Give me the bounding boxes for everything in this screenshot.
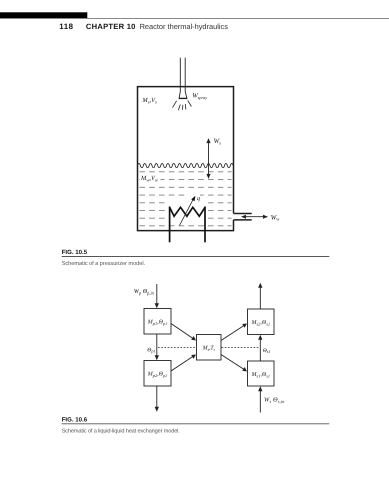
- label Mw,Vw: [140, 173, 161, 182]
- arrow Mt to Ms1: [221, 355, 247, 372]
- arrow q (heater power): [180, 194, 201, 226]
- arrow Ms1 to Ms2: [258, 335, 262, 361]
- svg-text:Mt,Tt: Mt,Tt: [202, 346, 216, 352]
- svg-text:Θs1: Θs1: [263, 348, 271, 354]
- dashed line right: [222, 347, 260, 349]
- surge pipe: [234, 214, 252, 220]
- caption rule 10.6: [62, 423, 330, 425]
- heater white backdrop: [167, 198, 207, 224]
- svg-text:Ws: Ws: [214, 138, 222, 145]
- arrow Mp1 to Mt: [171, 324, 196, 341]
- svg-text:Mp1,Θp1: Mp1,Θp1: [147, 320, 167, 326]
- tank vessel: [138, 87, 234, 231]
- svg-text:Wp Θp,in: Wp Θp,in: [134, 288, 155, 295]
- box Ms2: [248, 309, 275, 335]
- svg-text:Θp1: Θp1: [147, 347, 155, 353]
- svg-text:Reactor thermal-hydraulics: Reactor thermal-hydraulics: [140, 22, 229, 31]
- svg-text:Ws Θs,in: Ws Θs,in: [264, 397, 285, 404]
- svg-text:118: 118: [59, 22, 73, 31]
- svg-text:Schematic of a pressurizer mod: Schematic of a pressurizer model.: [62, 260, 146, 267]
- svg-text:FIG. 10.6: FIG. 10.6: [62, 417, 88, 424]
- header rule: [0, 17, 389, 19]
- spray lines: [173, 100, 192, 110]
- svg-text:Ms,Vs: Ms,Vs: [141, 97, 157, 104]
- arrow Mp1 to Mp2: [155, 334, 159, 360]
- heater element (zigzag with legs): [170, 207, 205, 243]
- box Mt Tt: [197, 335, 222, 361]
- dashed line left: [158, 347, 196, 349]
- svg-text:Ms1,Θs1: Ms1,Θs1: [250, 372, 269, 378]
- svg-text:FIG. 10.5: FIG. 10.5: [62, 249, 88, 256]
- arrow Wp inlet: [155, 284, 159, 308]
- box Ms1: [248, 361, 275, 386]
- header black bar: [0, 12, 87, 18]
- arrow Ww (double headed horizontal): [241, 215, 268, 219]
- spray nozzle: [179, 92, 188, 99]
- arrow Mp2 outlet: [155, 386, 159, 412]
- svg-text:Ww: Ww: [271, 214, 281, 221]
- svg-text:q: q: [197, 195, 200, 202]
- arrow Mp2 to Mt: [171, 355, 196, 372]
- arrow Ws (double headed vertical): [206, 138, 210, 179]
- water surface wavy line: [138, 164, 234, 168]
- svg-text:Wspray: Wspray: [192, 93, 207, 101]
- box Mp2: [144, 361, 171, 387]
- svg-text:Ms2,Θs2: Ms2,Θs2: [250, 320, 269, 326]
- svg-text:Schematic of a liquid-liquid h: Schematic of a liquid-liquid heat exchan…: [62, 427, 181, 434]
- water dashed lines: [139, 172, 231, 226]
- spray pipe: [180, 58, 185, 92]
- caption rule 10.5: [62, 256, 330, 258]
- arrow Mt to Ms2: [221, 324, 247, 341]
- arrow Ms2 outlet: [258, 283, 262, 309]
- svg-text:Mp2,Θp2: Mp2,Θp2: [147, 372, 167, 378]
- box Mp1: [144, 309, 171, 335]
- svg-text:CHAPTER 10: CHAPTER 10: [86, 22, 136, 31]
- arrow Ws inlet: [258, 386, 262, 412]
